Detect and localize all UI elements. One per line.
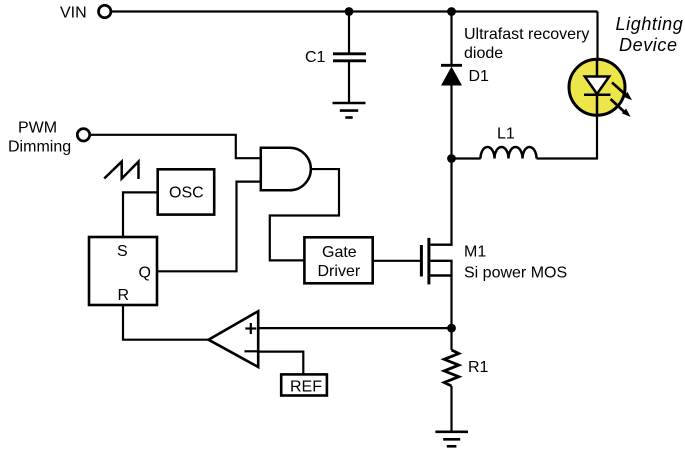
wire D1 bottom [450,86,452,159]
svg-text:Driver: Driver [318,263,361,280]
svg-text:R1: R1 [468,359,489,376]
svg-text:VIN: VIN [60,5,87,22]
node switch [447,154,456,163]
wire D1 top [450,12,452,66]
AND gate [261,148,311,191]
comparator minus input mark [245,350,258,352]
wire source to sense node [450,261,452,328]
svg-text:Si power MOS: Si power MOS [464,265,567,282]
svg-text:OSC: OSC [169,185,204,202]
svg-text:C1: C1 [305,49,326,66]
wire gate driver to gate [373,260,421,262]
svg-text:M1: M1 [464,244,486,261]
wire sense node to comparator plus [258,327,451,329]
wire PWM to AND gate [90,135,260,158]
lamp circle (lighting device) [569,59,625,115]
svg-text:R: R [118,287,130,304]
wire C1 branch [348,12,350,53]
oscillator OSC block [158,169,215,214]
svg-text:L1: L1 [497,126,515,143]
inductor L1 [481,147,537,159]
ground (C1) [333,103,366,118]
latch SR block [89,237,157,305]
resistor R1 [444,350,459,386]
wire top rail to lamp [596,12,598,61]
wire VIN rail [112,10,598,12]
svg-text:diode: diode [464,45,503,62]
wire switch node to drain [450,159,452,246]
comparator [209,311,259,367]
node junction at D1 [447,7,456,16]
svg-text:Q: Q [139,265,151,282]
svg-text:Lighting: Lighting [616,14,684,34]
wire R1 to ground [450,386,452,431]
node sense [447,324,456,333]
node junction at C1 [345,7,354,16]
wire L1 to switch node [452,157,481,159]
svg-text:Ultrafast recovery: Ultrafast recovery [464,26,589,43]
LED symbol inside lamp [584,60,610,115]
terminal VIN [99,5,111,17]
wire OSC to latch S input [123,192,158,237]
wire comparator output to latch R [123,305,209,340]
svg-text:PWM: PWM [18,120,57,137]
ground (R1) [435,432,468,447]
svg-text:Device: Device [619,35,678,55]
wire AND output to Gate Driver [270,169,339,260]
diode D1 [441,65,462,85]
svg-text:S: S [117,243,128,260]
wire Q output to AND gate [157,182,261,272]
gate driver block [304,237,372,283]
LED arrow 2 [611,99,631,117]
wire comparator minus to REF [258,352,303,375]
wire sense node to R1 [450,328,452,350]
REF block [281,374,327,395]
transistor M1 [421,238,452,285]
comparator plus input mark [245,323,256,334]
capacitor C1 [333,54,366,61]
wire lamp to L1 [537,115,598,159]
svg-text:Gate: Gate [322,244,357,261]
svg-text:Dimming: Dimming [8,139,71,156]
wire C1 to ground [348,62,350,103]
svg-text:REF: REF [290,379,322,396]
svg-text:D1: D1 [469,68,490,85]
terminal PWM [77,129,89,141]
sawtooth symbol [104,162,138,179]
LED arrow 1 [612,83,632,101]
